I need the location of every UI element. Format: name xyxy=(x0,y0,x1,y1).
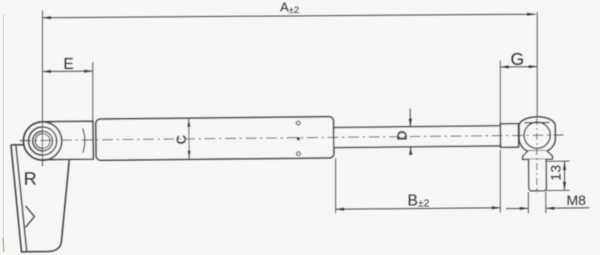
stud centerline dashed xyxy=(536,118,538,194)
threaded stud shank xyxy=(529,159,547,191)
dimension 13 (thread length) extension lines xyxy=(546,160,570,162)
svg-text:E: E xyxy=(63,56,73,73)
vent hole top xyxy=(296,121,300,125)
svg-text:R: R xyxy=(24,169,37,189)
svg-text:D: D xyxy=(394,130,410,140)
extension line A/G right (ball center) xyxy=(536,12,538,117)
dimension D (rod diameter) arrows xyxy=(409,109,411,126)
eyelet block (housing between eye and cylinder) xyxy=(43,121,93,159)
extension line E right xyxy=(92,62,94,121)
ball socket housing xyxy=(519,117,555,151)
scan edge artifact left xyxy=(3,14,5,247)
dimension E xyxy=(43,70,93,72)
bracket inner plate edge xyxy=(16,145,27,251)
dimension G xyxy=(500,66,537,68)
dimension 13 line xyxy=(564,162,566,191)
eyelet ring 2 xyxy=(28,127,56,155)
bracket R (mounting bracket, behind eyelet) xyxy=(11,144,70,252)
socket rim chord xyxy=(524,121,549,123)
eyelet boss circle xyxy=(23,122,62,161)
crimp arc inside block xyxy=(83,128,85,152)
washer flange xyxy=(523,151,553,160)
main centerline (dash-dot axis) xyxy=(20,135,563,141)
extension line left (eye center, A/E) xyxy=(42,11,44,167)
eyelet bore xyxy=(35,134,50,149)
dimension C (tube diameter) arrow line xyxy=(188,119,190,159)
svg-text:M8: M8 xyxy=(567,192,587,208)
dimension B±2 xyxy=(336,208,501,209)
piston rod xyxy=(334,126,501,148)
M8 dimension arrows xyxy=(506,207,528,209)
eyelet ring 3 xyxy=(33,131,53,151)
extension line G left / B right xyxy=(499,61,501,125)
svg-text:C: C xyxy=(174,134,189,144)
vent hole bottom xyxy=(297,152,301,156)
ball xyxy=(524,122,550,148)
dimension A±2 xyxy=(43,14,536,18)
extension line B left xyxy=(335,158,337,213)
rod end neck block xyxy=(500,124,518,148)
M8 stud extension lines xyxy=(527,192,529,213)
svg-text:G: G xyxy=(510,49,524,69)
svg-text:13: 13 xyxy=(547,164,563,181)
bracket tab notch xyxy=(25,206,34,227)
cylinder tube xyxy=(96,117,334,161)
vent dot middle (on axis) xyxy=(297,137,300,140)
